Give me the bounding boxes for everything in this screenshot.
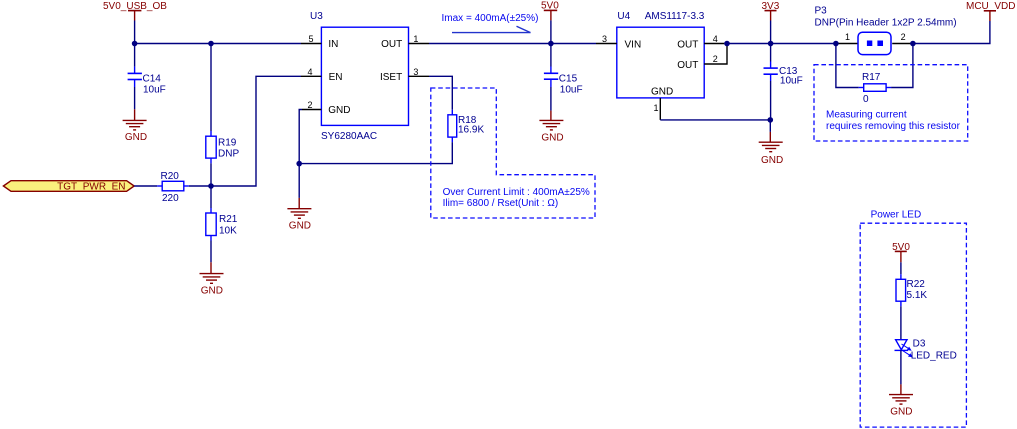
wire R22 to D3	[900, 306, 902, 340]
svg-text:LED_RED: LED_RED	[911, 350, 957, 361]
svg-text:GND: GND	[289, 221, 311, 232]
port TGT_PWR_EN	[3, 181, 134, 193]
svg-text:10uF: 10uF	[780, 76, 803, 87]
wire port to R20	[134, 185, 157, 187]
svg-text:R19: R19	[218, 138, 237, 149]
svg-text:GND: GND	[651, 86, 673, 97]
svg-text:OUT: OUT	[381, 39, 402, 50]
svg-text:TGT_PWR_EN: TGT_PWR_EN	[57, 181, 125, 192]
svg-text:GND: GND	[125, 132, 147, 143]
dashed note box measuring current	[814, 65, 968, 141]
svg-text:16.9K: 16.9K	[458, 125, 484, 136]
resistor R22	[896, 274, 927, 306]
junction at C14	[132, 41, 138, 47]
svg-text:R21: R21	[219, 214, 238, 225]
svg-text:DNP(Pin Header 1x2P 2.54mm): DNP(Pin Header 1x2P 2.54mm)	[815, 17, 957, 28]
junction U3 GND / R18	[296, 161, 302, 167]
wire ISET net	[429, 76, 452, 110]
svg-text:Ilim= 6800 / Rset(Unit : Ω): Ilim= 6800 / Rset(Unit : Ω)	[443, 198, 559, 209]
svg-text:GND: GND	[541, 132, 563, 143]
pin 3 U3	[409, 67, 430, 77]
svg-text:P3: P3	[815, 5, 828, 16]
svg-text:OUT: OUT	[677, 40, 698, 51]
wire junction to GND	[298, 164, 300, 198]
svg-text:AMS1117-3.3: AMS1117-3.3	[645, 11, 705, 22]
svg-text:10uF: 10uF	[143, 84, 166, 95]
ground GND under C13	[759, 132, 784, 166]
svg-text:R22: R22	[907, 279, 926, 290]
svg-text:R20: R20	[161, 171, 180, 182]
svg-text:2: 2	[901, 32, 906, 42]
svg-text:Over Current Limit : 400mA±25%: Over Current Limit : 400mA±25%	[443, 187, 590, 198]
wire OUT net	[429, 43, 596, 45]
svg-text:GND: GND	[890, 407, 912, 418]
resistor R21	[206, 208, 238, 241]
dashed note box over current limit	[431, 88, 595, 218]
ground GND under D3	[889, 384, 913, 417]
pin 1 U4	[653, 98, 660, 120]
wire R19 top	[210, 44, 212, 132]
wire 3V3 stub	[770, 21, 772, 44]
svg-text:Power LED: Power LED	[871, 210, 922, 221]
connector P3 pin header	[815, 5, 957, 54]
ground GND under C14	[123, 109, 148, 143]
junction 5V0	[548, 41, 554, 47]
comment Imax arrow	[442, 13, 539, 33]
wire top rail	[135, 43, 301, 45]
pin 4 U4	[704, 34, 724, 44]
diode D3 LED_RED	[895, 339, 957, 362]
wire R20 to junction	[189, 185, 211, 187]
wire D3 to GND	[900, 350, 902, 384]
wire R18 bottom loop	[299, 142, 452, 164]
pin 4 U3	[301, 67, 321, 77]
svg-text:5.1K: 5.1K	[907, 290, 928, 301]
wire 3V3 rail	[724, 43, 836, 45]
junction P3 pin1	[833, 41, 839, 47]
svg-text:Imax = 400mA(±25%): Imax = 400mA(±25%)	[442, 13, 539, 24]
resistor R18	[448, 110, 485, 142]
svg-text:C15: C15	[559, 73, 578, 84]
svg-text:3: 3	[602, 34, 607, 44]
wire U4 GND to C13	[660, 119, 770, 121]
wire EN net	[211, 76, 301, 186]
wire 5V0 stub	[550, 20, 552, 43]
power port MCU_VDD	[966, 1, 1015, 21]
wire U3 GND pin	[299, 110, 302, 164]
pin 1 U3	[409, 34, 430, 44]
svg-text:5: 5	[308, 34, 313, 44]
svg-text:U3: U3	[310, 11, 323, 22]
svg-text:GND: GND	[761, 155, 783, 166]
junction at R19	[208, 41, 214, 47]
svg-text:4: 4	[713, 34, 718, 44]
pin 3 U4	[596, 34, 617, 44]
pin 2 U4	[704, 44, 727, 65]
ground GND under U3	[287, 198, 311, 232]
svg-text:1: 1	[845, 32, 850, 42]
svg-text:10K: 10K	[219, 225, 237, 236]
pin 5 U3	[301, 34, 321, 44]
svg-text:C14: C14	[143, 73, 162, 84]
junction P3 pin2	[910, 41, 916, 47]
wire MCU_VDD net	[913, 21, 990, 44]
svg-text:R17: R17	[862, 72, 881, 83]
dashed box power LED	[860, 223, 966, 427]
wire R17 loop right	[891, 44, 913, 88]
resistor R19	[206, 131, 240, 163]
svg-text:OUT: OUT	[677, 60, 698, 71]
pin 2 U3	[302, 100, 321, 110]
junction at R20/R21	[208, 183, 214, 189]
svg-text:D3: D3	[913, 339, 926, 350]
power port 5V0_USB_OB	[103, 1, 167, 21]
junction C13 bottom	[768, 117, 774, 123]
svg-text:1: 1	[413, 34, 418, 44]
capacitor C13	[764, 44, 803, 120]
svg-text:requires removing this resisto: requires removing this resistor	[826, 121, 961, 132]
svg-text:3: 3	[413, 67, 418, 77]
comment measuring current	[826, 110, 961, 132]
svg-text:220: 220	[162, 193, 179, 204]
svg-text:DNP: DNP	[218, 148, 239, 159]
svg-text:2: 2	[713, 54, 718, 64]
power port 5V0	[541, 1, 559, 21]
svg-text:GND: GND	[201, 286, 223, 297]
svg-text:Measuring current: Measuring current	[826, 110, 907, 121]
comment over current limit	[443, 187, 590, 209]
regulator U4 AMS1117-3.3	[617, 11, 705, 98]
svg-text:SY6280AAC: SY6280AAC	[321, 131, 377, 142]
svg-text:4: 4	[307, 67, 312, 77]
wire 5V0 to R22	[900, 262, 902, 274]
wire 5V0_USB_OB stub	[134, 21, 136, 44]
svg-text:ISET: ISET	[380, 72, 402, 83]
resistor R17	[859, 72, 891, 105]
junction 3V3/C13	[768, 41, 774, 47]
power port 5V0 LED	[892, 242, 910, 262]
ground GND under C15	[539, 111, 563, 144]
capacitor C14	[128, 44, 166, 110]
pin 2 P3	[892, 32, 913, 43]
junction pin2/pin4	[724, 41, 730, 47]
capacitor C15	[544, 44, 583, 111]
wire R17 loop left	[836, 44, 859, 88]
svg-text:IN: IN	[328, 39, 338, 50]
wire C13 to GND	[769, 120, 771, 132]
svg-text:GND: GND	[328, 105, 350, 116]
svg-text:EN: EN	[329, 72, 343, 83]
svg-text:2: 2	[307, 100, 312, 110]
power port 3V3	[762, 1, 780, 21]
svg-text:10uF: 10uF	[560, 85, 583, 96]
svg-text:VIN: VIN	[625, 40, 642, 51]
svg-text:1: 1	[653, 103, 658, 113]
resistor R20	[157, 171, 189, 204]
svg-text:U4: U4	[617, 11, 630, 22]
op-amp U3 SY6280AAC	[310, 11, 409, 142]
wire R19 bottom to junction	[210, 163, 212, 208]
wire R21 bottom	[210, 241, 212, 263]
svg-text:0: 0	[863, 94, 869, 105]
ground GND under R21	[200, 262, 224, 296]
pin 1 P3	[836, 32, 858, 43]
